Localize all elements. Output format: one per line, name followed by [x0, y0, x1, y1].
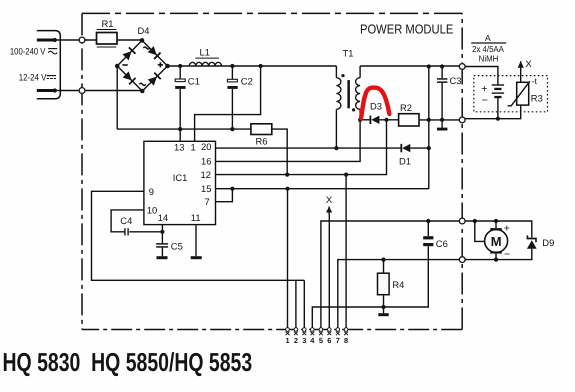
svg-text:M: M	[491, 234, 502, 249]
svg-text:POWER MODULE: POWER MODULE	[360, 22, 454, 37]
svg-text:15: 15	[201, 183, 211, 194]
svg-text:+: +	[504, 223, 510, 235]
svg-text:C4: C4	[120, 215, 132, 226]
svg-text:100-240 V: 100-240 V	[10, 45, 46, 56]
svg-text:C3: C3	[450, 75, 462, 86]
svg-text:3: 3	[302, 336, 306, 345]
svg-text:6: 6	[327, 336, 331, 345]
svg-text:R4: R4	[392, 279, 404, 290]
svg-text:11: 11	[191, 212, 201, 223]
svg-text:2x 4/5AA: 2x 4/5AA	[472, 44, 504, 54]
svg-text:C6: C6	[436, 238, 448, 249]
svg-text:R2: R2	[400, 102, 412, 113]
svg-text:10: 10	[147, 204, 157, 215]
svg-text:D3: D3	[370, 101, 382, 112]
svg-text:C2: C2	[241, 76, 253, 87]
svg-text:-t: -t	[532, 76, 538, 86]
svg-text:7: 7	[205, 196, 210, 207]
svg-text:14: 14	[158, 212, 168, 223]
svg-text:L1: L1	[200, 47, 210, 58]
svg-text:D1: D1	[399, 156, 411, 167]
svg-text:D4: D4	[138, 25, 150, 36]
svg-text:A: A	[485, 33, 491, 43]
svg-text:1: 1	[191, 142, 196, 153]
svg-text:NiMH: NiMH	[479, 54, 499, 64]
svg-text:12-24 V: 12-24 V	[19, 71, 47, 82]
svg-text:9: 9	[149, 186, 154, 197]
svg-text:+: +	[481, 83, 487, 95]
svg-text:D9: D9	[542, 237, 554, 248]
svg-text:8: 8	[344, 336, 348, 345]
svg-text:IC1: IC1	[173, 172, 188, 183]
svg-text:C5: C5	[171, 241, 183, 252]
svg-text:−: −	[504, 249, 510, 261]
svg-text:R3: R3	[531, 93, 543, 104]
svg-text:R1: R1	[102, 18, 114, 29]
svg-text:4: 4	[310, 336, 315, 345]
svg-text:13: 13	[174, 142, 184, 153]
svg-text:HQ 5830 HQ 5850/HQ 5853: HQ 5830 HQ 5850/HQ 5853	[3, 347, 253, 377]
svg-text:16: 16	[201, 156, 211, 167]
svg-text:7: 7	[336, 336, 340, 345]
svg-text:X: X	[525, 59, 532, 70]
svg-text:12: 12	[201, 169, 211, 180]
svg-text:−: −	[482, 94, 488, 106]
svg-text:T1: T1	[343, 48, 354, 59]
svg-text:5: 5	[319, 336, 323, 345]
svg-text:R6: R6	[256, 136, 268, 147]
svg-text:X: X	[326, 195, 333, 206]
svg-text:20: 20	[201, 141, 211, 152]
svg-text:1: 1	[285, 336, 289, 345]
svg-text:2: 2	[294, 336, 298, 345]
svg-text:C1: C1	[188, 76, 200, 87]
